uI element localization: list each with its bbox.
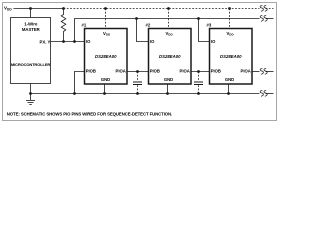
svg-text:VDD: VDD [103, 31, 111, 37]
svg-text:PIOB: PIOB [86, 68, 96, 73]
svg-text:NOTE: SCHEMATIC SHOWS PIO PINS: NOTE: SCHEMATIC SHOWS PIO PINS WIRED FOR… [7, 112, 172, 117]
svg-text:1-Wire: 1-Wire [24, 22, 38, 27]
svg-text:DS28EA00: DS28EA00 [159, 54, 181, 59]
svg-text:#2: #2 [146, 22, 151, 27]
svg-text:VDD: VDD [166, 31, 174, 37]
svg-text:PIOB: PIOB [211, 68, 221, 73]
svg-text:MASTER: MASTER [22, 27, 41, 32]
svg-text:DS28EA00: DS28EA00 [95, 54, 117, 59]
svg-text:IO: IO [211, 39, 216, 44]
svg-text:PIOA: PIOA [116, 68, 126, 73]
svg-text:#3: #3 [207, 22, 212, 27]
svg-text:MICROCONTROLLER: MICROCONTROLLER [11, 62, 51, 67]
svg-text:GND: GND [101, 77, 110, 82]
svg-text:PIOA: PIOA [180, 68, 190, 73]
svg-text:#1: #1 [82, 22, 87, 27]
svg-text:PIOB: PIOB [150, 68, 160, 73]
svg-text:PIOA: PIOA [241, 68, 251, 73]
svg-text:IO: IO [150, 39, 155, 44]
svg-text:GND: GND [164, 77, 173, 82]
svg-text:VDD: VDD [227, 31, 235, 37]
svg-text:IO: IO [86, 39, 91, 44]
svg-text:GND: GND [225, 77, 234, 82]
svg-text:DS28EA00: DS28EA00 [220, 54, 242, 59]
svg-text:VDD: VDD [4, 6, 12, 12]
svg-text:PX. Y: PX. Y [39, 40, 50, 45]
